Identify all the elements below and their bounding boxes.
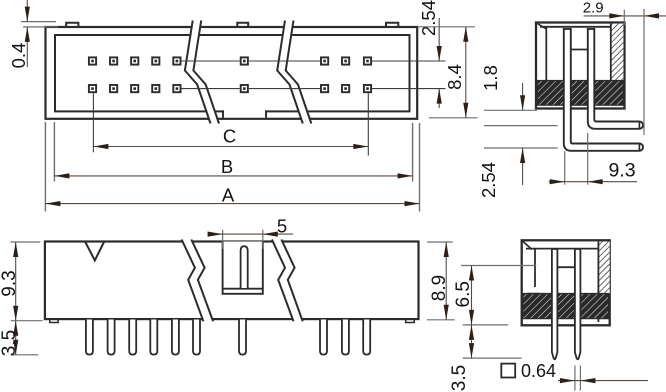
dim 9.3: extension from pin A bend xyxy=(587,133,589,185)
dim 2.54: extension at pin B xyxy=(484,147,558,149)
straight view: top-left chamfer xyxy=(523,242,532,250)
dim 0.4: extension line at tab top xyxy=(21,21,56,23)
top view: right polarization tab xyxy=(386,23,398,28)
top view: break 2 white gap xyxy=(277,21,311,124)
side view: pin B round end cap xyxy=(639,144,643,151)
front view: pin 5 (round-tip) xyxy=(172,320,179,355)
dim 3.5: extension at pin tips xyxy=(463,357,522,359)
top view: shroud inner wall outline xyxy=(55,35,410,111)
side view: pin A round end cap xyxy=(639,122,643,129)
front view: center pin seen through slot xyxy=(241,246,248,288)
side view: right wall cross-hatch xyxy=(611,24,624,81)
dim 8.4: extension at shell bottom xyxy=(429,117,478,119)
dim 0.64: dimension line xyxy=(558,380,648,382)
svg-text:9.3: 9.3 xyxy=(0,270,20,296)
dim 9.3 front: extension at body top xyxy=(11,241,41,243)
front view: right standoff foot xyxy=(406,319,415,322)
side view: pin B top cap xyxy=(564,28,571,30)
dim 6.5: dimension line xyxy=(471,266,473,325)
svg-text:9.3: 9.3 xyxy=(608,159,635,181)
svg-text:2.9: 2.9 xyxy=(583,0,604,16)
front view: pin 4 (round-tip) xyxy=(150,320,157,355)
svg-text:1.8: 1.8 xyxy=(480,65,501,91)
dim 2.9: extension at body edge xyxy=(623,10,625,25)
front view: break 2 right zigzag line xyxy=(281,240,302,322)
dim A: dimension line xyxy=(45,203,419,205)
dim 2.54: lower line xyxy=(438,89,440,108)
dim 0.4: upper dimension line xyxy=(26,0,28,22)
side view: left wall inner edge xyxy=(545,28,547,82)
side view: pin B inner edge xyxy=(571,28,640,144)
top view: row 2 centerline segment right / 2.54 extension xyxy=(372,88,446,90)
dim 3.5 front: dimension line xyxy=(15,321,17,355)
dim 8.4: dimension line xyxy=(465,27,467,118)
dim 1.8/2.54: extension at pin A xyxy=(484,125,558,127)
dim 2.9: extension at pin ends xyxy=(643,9,645,135)
pin 4 row1 (square post, top view) xyxy=(152,57,159,64)
svg-text:5: 5 xyxy=(277,216,287,237)
straight view: right wall cross-hatch xyxy=(598,242,609,295)
svg-text:2.54: 2.54 xyxy=(418,0,439,36)
straight view: pin strip crossbar xyxy=(557,266,575,268)
pin r2 row2 (square post, top view) xyxy=(342,85,349,92)
pin r3 row2 (square post, top view) xyxy=(364,85,371,92)
pin 2 row1 (square post, top view) xyxy=(110,57,117,64)
top view: row 2 centerline segment left xyxy=(182,88,240,90)
front view: right pin 3 xyxy=(363,320,370,355)
pin 3 row1 (square post, top view) xyxy=(131,57,138,64)
square pin symbol xyxy=(501,364,515,378)
pin r1 row2 (square post, top view) xyxy=(321,85,328,92)
dim C: left leader from pin 1 xyxy=(92,93,94,152)
pin r1 row1 (square post, top view) xyxy=(321,57,328,64)
straight view: right wall inner edge xyxy=(597,242,599,323)
dim 0.4: extension line at shell top xyxy=(23,26,58,28)
svg-text:0.64: 0.64 xyxy=(521,361,556,381)
dim 9.3/3.5 front: extension at body bottom xyxy=(11,320,43,322)
top view: connector shell outer outline xyxy=(46,27,418,119)
side view: bent pin B (front, exits lower) white body xyxy=(564,70,640,151)
front view: center key slot xyxy=(223,242,263,294)
top view: key slot right edge xyxy=(265,110,267,118)
svg-text:C: C xyxy=(223,126,236,147)
side view: pin B outer edge xyxy=(564,28,640,151)
front view: right pin 2 xyxy=(342,320,349,355)
dim A: right extension line xyxy=(419,123,421,212)
svg-text:2.54: 2.54 xyxy=(478,162,499,198)
pin mid row2 (square post, top view) xyxy=(241,85,248,92)
top view: break 1 left zigzag line xyxy=(185,21,211,124)
top view: key slot opening (masks inner wall line) xyxy=(224,106,265,118)
front view: break 1 right zigzag line xyxy=(191,240,213,322)
side view: pin A outer edge xyxy=(588,28,640,129)
dim 1.8: extension at body bottom xyxy=(484,109,537,111)
svg-text:3.5: 3.5 xyxy=(449,365,470,391)
svg-text:0.4: 0.4 xyxy=(8,43,29,69)
front view: break 1 white gap xyxy=(182,240,214,322)
svg-text:A: A xyxy=(222,185,235,206)
pin 1 row1 (square post, top view) xyxy=(89,57,96,64)
straight view: top wall inner edge xyxy=(526,248,598,250)
front view: break 2 white gap xyxy=(272,240,303,322)
top view: row 1 centerline segment left xyxy=(182,60,240,62)
side view: top-left chamfer xyxy=(538,24,547,29)
front view: pin 1 (round-tip) xyxy=(86,320,93,355)
dim 8.9: dimension line xyxy=(445,242,447,320)
svg-text:6.5: 6.5 xyxy=(453,281,474,307)
pin 1 row2 (square post, top view) xyxy=(89,85,96,92)
side view: bent pin A (rear, exits upper) white body xyxy=(588,70,640,129)
side view: right wall inner edge xyxy=(610,24,612,106)
pin 5 row2 (square post, top view) xyxy=(173,85,180,92)
top view: break 1 right zigzag line xyxy=(193,21,219,124)
front view: key slot floor upper line xyxy=(223,288,263,290)
dim B: right extension line xyxy=(412,123,414,182)
straight header side view: body outline xyxy=(522,240,610,325)
side view: pin A top cap xyxy=(588,28,595,30)
dim A: left extension line xyxy=(44,122,46,212)
side view: pin A end cap bar xyxy=(638,122,640,129)
dim 0.64: right extension xyxy=(579,366,581,391)
side view: top wall inner edge xyxy=(540,26,611,28)
dim 3.5 right: dimension line xyxy=(471,325,473,358)
front view: pin 3 (round-tip) xyxy=(129,320,136,355)
front view: left standoff foot xyxy=(50,319,58,322)
top view: row 1 centerline segment middle xyxy=(249,60,320,62)
front view: pin 6 (round-tip) xyxy=(193,320,200,355)
dim C: right leader from last pin xyxy=(367,93,369,155)
front view: pin-1 V mark on top edge xyxy=(85,242,104,260)
dim 9.3 front: dimension line xyxy=(15,242,17,321)
front view: break 2 left zigzag line xyxy=(272,240,294,322)
dim 2.54: dimension line xyxy=(522,148,524,185)
straight view: base step notch xyxy=(527,287,540,294)
dim 0.4: lower dimension line xyxy=(26,27,28,67)
front view: body outline xyxy=(45,242,419,320)
svg-text:8.4: 8.4 xyxy=(444,64,465,90)
dim 8.9: top extension xyxy=(427,241,453,243)
straight view: left wall inner edge xyxy=(534,249,536,296)
pin 3 row2 (square post, top view) xyxy=(131,85,138,92)
side view: pin strip crossbar xyxy=(571,49,588,51)
side view: hatched base block xyxy=(537,81,623,106)
dim B: dimension line xyxy=(54,175,412,177)
top view: key slot left edge xyxy=(222,110,224,118)
pin 5 row1 (square post, top view) xyxy=(173,57,180,64)
side view: pin B end cap bar xyxy=(638,144,640,151)
straight view: hatched base block xyxy=(523,294,609,319)
pin 4 row2 (square post, top view) xyxy=(152,85,159,92)
top view: break 2 left zigzag line xyxy=(277,21,303,124)
top view: break 1 white gap xyxy=(185,21,219,124)
dim B: left extension line xyxy=(53,122,55,182)
top view: row 1 centerline segment right / 2.54 extension xyxy=(372,60,446,62)
straight view: pin 1 (through pin, pointed tip) xyxy=(552,249,558,359)
dim 9.3: extension from pin B bend xyxy=(564,151,566,185)
dim 3.5 front: extension at pin tips xyxy=(11,354,39,356)
top view: row 2 centerline segment middle xyxy=(249,88,320,90)
top view: middle polarization tab xyxy=(237,23,248,28)
front view: right pin 1 xyxy=(320,320,327,355)
dim 9.3: dimension line xyxy=(549,181,637,183)
dim 5: dimension line xyxy=(208,233,293,235)
pin r3 row1 (square post, top view) xyxy=(364,57,371,64)
svg-text:B: B xyxy=(221,156,233,177)
pin r2 row1 (square post, top view) xyxy=(342,57,349,64)
svg-text:3.5: 3.5 xyxy=(0,330,20,356)
top view: left polarization tab xyxy=(66,23,78,28)
svg-text:8.9: 8.9 xyxy=(429,275,450,301)
front view: middle pin xyxy=(239,320,246,355)
top view: break 2 right zigzag line xyxy=(286,21,312,124)
dim 6.5: top extension (pin shoulder) xyxy=(461,265,536,267)
side view: pin A inner edge xyxy=(594,28,639,122)
right-angle header side view: body outline xyxy=(536,23,625,109)
front view: break 1 left zigzag line xyxy=(182,240,204,322)
pin 2 row2 (square post, top view) xyxy=(110,85,117,92)
pin mid row1 (square post, top view) xyxy=(241,57,248,64)
dim 5: left extension xyxy=(222,230,224,249)
front view: pin 2 (round-tip) xyxy=(108,320,115,355)
dim 6.5/3.5: extension at body bottom xyxy=(463,324,509,326)
straight view: pin 2 (through pin, pointed tip) xyxy=(575,249,581,359)
dim 2.9: dimension line xyxy=(584,15,666,17)
straight view: notch floor line xyxy=(527,293,540,295)
dim 8.9: bottom extension xyxy=(427,319,455,321)
dim C: dimension line xyxy=(93,146,368,148)
dim 0.64: left extension xyxy=(574,366,576,391)
dim 2.54: upper line xyxy=(438,18,440,61)
dim 5: right extension xyxy=(262,230,264,249)
dim 8.4: extension at shell top xyxy=(418,26,476,28)
dim 1.8: dimension line xyxy=(522,83,524,110)
